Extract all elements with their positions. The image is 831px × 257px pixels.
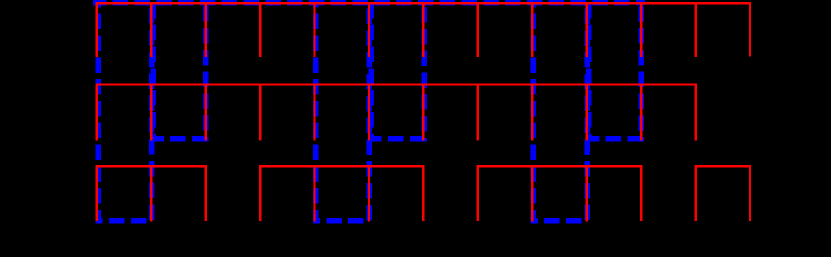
red waveform row 3 pulse 1 [97, 166, 206, 221]
red waveform row 3 pulse 2 [260, 166, 423, 221]
red row 2 clock spikes [97, 85, 641, 141]
red waveform row 1 (top line with end corner) [96, 3, 750, 56]
red waveform row 3 pulse 4 [696, 166, 750, 221]
blue wave B fall-low-rise segment 1 [98, 3, 151, 221]
blue wave A fall-low-rise segment 1 [153, 3, 205, 139]
blue wave B fall-low-rise segment 3 [533, 3, 587, 221]
red row 3 clock spikes [151, 166, 587, 221]
red row 1 clock spikes [97, 3, 696, 57]
blue wave A fall-low-rise segment 2 [371, 3, 424, 139]
blue wave B fall-low-rise segment 2 [316, 3, 370, 221]
red waveform row 2 (high line with end corner) [96, 85, 696, 141]
blue wave A fall-low-rise segment 3 [589, 3, 642, 139]
red waveform row 3 pulse 3 [478, 166, 641, 221]
blue dashed top line (waves A and B high level) [93, 0, 645, 6]
